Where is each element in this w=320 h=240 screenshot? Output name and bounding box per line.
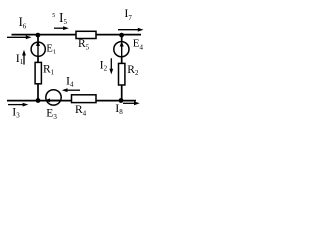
resistor R5 bbox=[76, 31, 96, 51]
current arrow I2 bbox=[100, 57, 114, 74]
resistor R4 bbox=[72, 95, 97, 118]
source E3 bbox=[45, 90, 62, 121]
wire left branch R1 to node C bbox=[37, 84, 39, 101]
wire top left stub through node A to R5 bbox=[12, 34, 77, 36]
wire right branch node B to E4 bbox=[121, 35, 123, 42]
current arrow I4 bbox=[62, 73, 80, 92]
current arrow I1 bbox=[16, 50, 26, 66]
wire left branch node A to E1 bbox=[37, 35, 39, 43]
node A bbox=[36, 33, 41, 38]
wire top from R5 through node B to right stub end bbox=[96, 34, 141, 36]
current arrow I5 bbox=[52, 10, 69, 30]
wire right branch R2 to node D bbox=[121, 85, 123, 101]
current arrow I6 bbox=[7, 15, 32, 39]
node D bbox=[119, 98, 124, 103]
current arrow I7 bbox=[118, 6, 144, 32]
svg-text:5: 5 bbox=[52, 13, 55, 19]
wire bottom left stub through E3 to R4 bbox=[7, 100, 72, 102]
current arrow I8 bbox=[115, 101, 139, 116]
node C bbox=[36, 98, 41, 103]
node B bbox=[119, 33, 124, 38]
wire bottom R4 through node D to right stub end bbox=[96, 100, 136, 102]
source E1 bbox=[31, 41, 56, 57]
current arrow I3 bbox=[8, 103, 28, 120]
wire left branch E1 to R1 bbox=[37, 56, 39, 63]
resistor R2 bbox=[119, 63, 139, 85]
wire right branch E4 to R2 bbox=[121, 57, 123, 64]
resistor R1 bbox=[35, 62, 55, 83]
source E4 bbox=[114, 38, 144, 57]
